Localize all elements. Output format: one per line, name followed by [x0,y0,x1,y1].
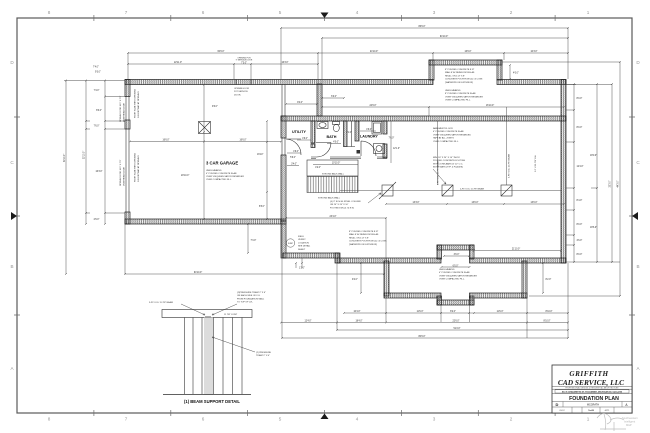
svg-text:UNEXCAVATED: UNEXCAVATED [206,169,222,172]
svg-text:UNEXCAVATED: UNEXCAVATED [445,89,461,92]
svg-text:16'6.0": 16'6.0" [239,140,246,142]
door arc bath [316,143,331,158]
svg-text:8'10.0": 8'10.0" [545,311,552,313]
dim chain top y64 [127,62,319,79]
svg-text:ON 24" X 24" X 10": ON 24" X 24" X 10" [330,204,349,206]
centerline marker left [11,212,17,220]
svg-text:LAUNDRY: LAUNDRY [360,135,378,139]
svg-text:6: 6 [202,10,205,15]
svg-text:94'10.0": 94'10.0" [440,36,448,38]
grid row labels left [10,60,14,371]
dim chain y338 [281,224,569,339]
svg-text:8'4.0": 8'4.0" [577,200,583,202]
wall bumpout south right (y295) [470,293,528,298]
svg-text:8'3.0": 8'3.0" [96,110,102,112]
svg-text:BASEMENT FLOOR: BASEMENT FLOOR [433,127,453,130]
svg-text:39'10.0": 39'10.0" [64,154,66,162]
svg-text:10'10.0": 10'10.0" [332,163,340,165]
svg-text:4'0.0": 4'0.0" [513,73,519,75]
dim garage 16'6 chain y141 [129,140,282,143]
svg-text:2: 2 [510,417,513,422]
note steel column spec with leader [330,193,381,209]
svg-text:24'10.0": 24'10.0" [370,51,378,53]
svg-text:9' SERVICE DOOR: 9' SERVICE DOOR [236,60,253,62]
bath sink [317,122,328,129]
laundry washer [372,122,382,135]
svg-text:OVERHEAD DOOR: OVERHEAD DOOR [123,167,126,186]
dim rooms small lines [287,121,391,166]
svg-text:POUR SLAB THRU OPENING: POUR SLAB THRU OPENING [134,152,137,182]
svg-text:5'6.0": 5'6.0" [290,157,296,159]
svg-text:MIN. 24" X 24" X 10" THICK: MIN. 24" X 24" X 10" THICK [433,157,460,159]
svg-text:8: 8 [48,417,51,422]
svg-text:23'4.0": 23'4.0" [329,216,336,218]
bath toilet [333,122,340,132]
svg-text:STRONG BACK WALL: STRONG BACK WALL [322,173,345,176]
beam detail note pressure treat 2x4 [212,337,272,357]
svg-text:80'6.0": 80'6.0" [418,336,425,338]
svg-text:13'0.0": 13'0.0" [530,202,537,204]
svg-text:OVER VISQUEEN VAPOR RETARDER: OVER VISQUEEN VAPOR RETARDER [206,175,244,178]
svg-text:44'3.0": 44'3.0" [618,180,620,187]
svg-text:OVER VISQUEEN VAPOR RETARDED: OVER VISQUEEN VAPOR RETARDED [433,133,471,136]
svg-text:POUR SLAB THRU OPENING: POUR SLAB THRU OPENING [134,88,137,118]
svg-text:(1) BEAM SUPPORT DETAIL: (1) BEAM SUPPORT DETAIL [184,399,240,404]
wall bath/laundry x357 [355,121,359,141]
dim chain y313 [343,311,569,314]
wall west lower vertical x283 [281,221,286,258]
door arc laundry [361,141,376,156]
dim right chain x620 [502,61,621,297]
svg-text:94'10.0": 94'10.0" [194,272,202,274]
wall garage+house top (y80) [125,80,433,85]
svg-text:10'4.0": 10'4.0" [353,311,360,313]
svg-text:6'0.0": 6'0.0" [331,96,337,98]
svg-text:10'3.0": 10'3.0" [530,51,537,53]
dim 1'2 below sump wall [295,258,305,270]
beam detail joist lines [185,318,243,395]
wall east x563 [561,80,566,264]
svg-text:8'0.0": 8'0.0" [577,127,583,129]
svg-text:WALLS W/ REINFORCING AS: WALLS W/ REINFORCING AS [445,71,475,74]
svg-text:LOCATION: LOCATION [298,241,309,244]
wall south main right segment (y260) [470,258,567,263]
svg-text:51'2.0": 51'2.0" [453,328,460,330]
title row D mcgrath A [563,402,622,408]
wall bumpout east x524 [522,261,527,298]
svg-text:24'6.0": 24'6.0" [369,105,376,107]
svg-text:32'3.0": 32'3.0" [610,180,612,187]
svg-text:OVERHEAD DOOR: OVERHEAD DOOR [123,103,126,122]
svg-text:OVER COMPACTED FILL.: OVER COMPACTED FILL. [439,278,465,281]
dim sump width chain y218 [285,216,387,261]
note unexcavated bumpout [439,268,477,281]
svg-text:16'6.0": 16'6.0" [162,140,169,142]
svg-text:8'10.0": 8'10.0" [543,321,550,323]
svg-text:32'10.0": 32'10.0" [84,151,86,159]
strong back wall upper rect [307,160,358,176]
svg-text:4'6.0": 4'6.0" [366,129,372,131]
dim 3'0 6'0 bump-up [441,254,471,268]
dim chain y322 [280,321,569,324]
sump pit circle [286,239,294,247]
note field verify sump [298,236,311,251]
wall utility/bath x313 [311,121,315,143]
svg-text:22'11.0": 22'11.0" [174,62,182,64]
dim chain left x66 [64,80,67,276]
svg-text:16'10": 16'10" [257,154,264,156]
dim stoop 6'0 [321,96,345,99]
svg-text:3-PLY LVL 11 7/8" BEAM: 3-PLY LVL 11 7/8" BEAM [508,154,511,178]
wall sump jog vertical x337 [335,253,340,263]
svg-text:(2) PRESSURE: (2) PRESSURE [256,352,272,354]
svg-text:2-PLY LVL 11 7/8" BEAM: 2-PLY LVL 11 7/8" BEAM [460,188,484,191]
svg-text:1'2.0": 1'2.0" [299,268,305,270]
svg-text:7'4.0": 7'4.0" [94,90,100,92]
svg-text:4'6.0": 4'6.0" [293,151,299,153]
svg-text:3'0.0": 3'0.0" [454,254,460,256]
svg-text:STRONG BACK WALL: STRONG BACK WALL [318,197,341,200]
svg-text:B: B [10,264,13,269]
note unexcavated top right [445,89,483,102]
grid column labels top [48,10,590,15]
laundry sink tub [374,144,385,154]
dim garage right vertical chain x267 [257,120,268,220]
svg-text:CONCRETE FOOTER W/ (2) #4 CONT: CONCRETE FOOTER W/ (2) #4 CONT. [349,241,387,243]
wall step vertical x500 [497,60,502,80]
svg-text:16'3.0": 16'3.0" [95,171,102,173]
svg-text:REQD, ON 1'-8" X 8": REQD, ON 1'-8" X 8" [349,237,369,239]
svg-text:FROM FOUNDATION WALL: FROM FOUNDATION WALL [237,297,265,300]
svg-text:9'4.0": 9'4.0" [297,102,303,104]
note 3 car garage [206,161,244,182]
svg-text:4'0.0": 4'0.0" [333,142,339,144]
wall bumpout west x386 [384,261,389,296]
svg-text:7'4.0": 7'4.0" [93,67,99,69]
wall laundry right x385 [383,121,387,158]
svg-text:UTILITY: UTILITY [292,130,306,134]
beam detail top bar [162,310,252,318]
svg-text:TAPE AT ALL JOINTS: TAPE AT ALL JOINTS [433,137,454,140]
note opening service door above wall [236,58,253,65]
wall upper rear (y62) [429,60,502,65]
svg-text:3 CAR GARAGE: 3 CAR GARAGE [206,161,238,166]
beam line vertical x437 [437,121,439,185]
svg-text:8" POURED CONCRETE SLAB: 8" POURED CONCRETE SLAB [445,92,476,95]
svg-text:2'4" X 11 7/8" LVL: 2'4" X 11 7/8" LVL [535,154,537,172]
note 8in poured walls mid left [349,231,387,246]
dim stoop 9'4 [285,102,318,105]
svg-text:OVER COMPACTED FILL.: OVER COMPACTED FILL. [433,140,459,143]
svg-text:2'1.0": 2'1.0" [346,132,352,134]
svg-text:FOUNDATION PLAN: FOUNDATION PLAN [569,396,619,402]
svg-text:9'3.0": 9'3.0" [95,72,101,74]
svg-text:86'6.0": 86'6.0" [418,26,425,28]
svg-text:OVER VISQUEEN VAPOR RETARDER: OVER VISQUEEN VAPOR RETARDER [439,274,477,277]
svg-text:WALLS W/ REINFORCING AS: WALLS W/ REINFORCING AS [349,233,379,236]
beam detail label 3-ply lvl [149,301,205,315]
dim chain left x105 [94,80,127,226]
svg-text:18'4.0": 18'4.0" [355,321,362,323]
svg-text:20'10.0": 20'10.0" [181,175,189,177]
dim right chain x597 [590,83,598,263]
svg-text:11 7/8" JOIST: 11 7/8" JOIST [224,314,238,316]
svg-text:2'6.0": 2'6.0" [94,219,100,221]
svg-text:8'0.0": 8'0.0" [577,254,583,256]
svg-text:4" POURED CONCRETE SLAB: 4" POURED CONCRETE SLAB [206,172,237,175]
wall bumpout dip bottom (y302) [437,300,474,305]
svg-text:TREAT 2" X 4": TREAT 2" X 4" [256,354,270,357]
svg-text:SHEET: SHEET [298,249,306,251]
svg-text:ON EACH SIDE OF LVL: ON EACH SIDE OF LVL [237,294,261,297]
svg-text:13'3.0": 13'3.0" [412,202,419,204]
svg-text:5: 5 [279,10,282,15]
svg-text:5: 5 [279,417,282,422]
svg-text:MCGRATH: MCGRATH [587,403,599,406]
svg-text:21'10.0": 21'10.0" [512,249,520,251]
centerline marker top [321,13,329,19]
svg-text:8'5.0": 8'5.0" [259,206,265,208]
dim chain top y28 [280,26,569,79]
svg-text:1: 1 [587,417,590,422]
svg-text:(WATERPROOF EXTERIOR): (WATERPROOF EXTERIOR) [349,243,377,246]
svg-text:(WATERPROOF EXTERIOR): (WATERPROOF EXTERIOR) [445,81,473,84]
svg-text:4'2.0": 4'2.0" [315,167,321,169]
beam detail ground line [163,394,251,396]
svg-text:12'4.0": 12'4.0" [304,321,311,323]
svg-text:2X6 KEYWAY AT OPENING: 2X6 KEYWAY AT OPENING [137,91,140,118]
svg-text:7'6.0": 7'6.0" [389,138,395,140]
svg-text:13'0.0": 13'0.0" [471,202,478,204]
svg-text:OVER COMPACTED FILL.: OVER COMPACTED FILL. [445,99,471,102]
dim right chain x574 [566,83,620,263]
svg-text:4'6.0": 4'6.0" [302,138,308,140]
svg-text:(2)PRESSURE TREAT 2" X 6": (2)PRESSURE TREAT 2" X 6" [237,291,266,294]
note 8in poured walls top right [445,69,483,84]
svg-text:11'6.0": 11'6.0" [497,311,504,313]
svg-text:22'6.0": 22'6.0" [452,321,459,323]
dim 7'3 garage to sump wall [247,223,256,254]
svg-text:M&P: M&P [626,423,632,427]
wall step vertical x431 [429,60,434,80]
svg-text:8'0.0": 8'0.0" [577,224,583,226]
svg-text:CAD SERVICE, LLC: CAD SERVICE, LLC [558,378,624,387]
svg-text:4'6.0": 4'6.0" [577,240,583,242]
wall sump jog horizontal (y255) [283,253,339,258]
svg-text:(4) 3" SCH 40 STEEL COLUMN: (4) 3" SCH 40 STEEL COLUMN [330,201,361,203]
svg-text:VERIFY: VERIFY [298,239,306,241]
beam centerline through columns [340,190,561,192]
svg-text:12'1.0": 12'1.0" [393,148,400,150]
wall bumpout dip right vertical [470,296,475,305]
svg-text:16'3.0": 16'3.0" [281,62,288,64]
svg-text:7: 7 [125,417,128,422]
wall garage bottom (y221) [125,219,286,224]
steel column basement 2 [442,185,453,196]
door arc utility left [286,139,301,155]
svg-text:11'6.0": 11'6.0" [417,311,424,313]
svg-text:8" POURED CONCRETE 8 FT: 8" POURED CONCRETE 8 FT [349,231,379,233]
svg-text:4" POURED CONCRETE SLAB: 4" POURED CONCRETE SLAB [439,271,470,274]
dim 8'2 right of bumpout [542,262,551,294]
svg-text:1in28: 1in28 [588,410,594,412]
note footing min 24x24 with leader [433,157,465,184]
svg-text:7'3.0": 7'3.0" [251,240,257,242]
rooms south thin wall y157 [311,157,387,159]
dim right chain x612 [610,83,614,263]
centerline marker bottom [321,414,329,420]
svg-text:1: 1 [587,10,590,15]
beam detail post shading [204,318,213,395]
wall south main left segment (y260) [337,258,441,263]
beam line vertical x506 [506,107,508,185]
steel column garage [199,122,211,134]
svg-text:OPENING FOR 16'2" X 7'0": OPENING FOR 16'2" X 7'0" [120,159,122,186]
wall garage right x283 [281,85,286,222]
svg-text:OVER VISQUEEN VAPOR RETARDER: OVER VISQUEEN VAPOR RETARDER [445,95,483,98]
svg-text:B: B [636,264,639,269]
svg-text:2X6 KEYWAY AT OPENING: 2X6 KEYWAY AT OPENING [137,155,140,182]
svg-text:D: D [556,402,559,407]
svg-text:3: 3 [433,417,436,422]
svg-text:8: 8 [48,10,51,15]
dim 4'0 step right [509,64,519,80]
svg-text:16'10.0": 16'10.0" [486,105,494,107]
svg-text:BATH: BATH [327,135,337,139]
svg-text:3: 3 [433,10,436,15]
svg-text:TO TOP OF LVL.: TO TOP OF LVL. [237,302,254,304]
svg-text:6: 6 [202,417,205,422]
dim 21'10 chain y250 [473,249,562,252]
dim chain y107 [321,84,565,116]
svg-text:2X7 SERVICE: 2X7 SERVICE [234,91,248,93]
wall south bump-up right vertical [470,245,475,259]
svg-text:8'2.0": 8'2.0" [450,311,456,313]
svg-text:9'6.0": 9'6.0" [212,106,218,108]
svg-text:16'6.0": 16'6.0" [464,51,471,53]
svg-text:813 S CHAUMETTE ST. TECUMSEH,: 813 S CHAUMETTE ST. TECUMSEH, MICHIGAN 5… [562,390,623,393]
steel column basement 3 [501,185,512,196]
svg-text:FOOTING W/ (2) #4 E.W.: FOOTING W/ (2) #4 E.W. [330,207,355,209]
svg-text:8" POURED CONCRETE 8 FT: 8" POURED CONCRETE 8 FT [445,69,475,71]
svg-text:18'6.0": 18'6.0" [590,227,597,229]
svg-text:REQD, ON 1'-8" X 8": REQD, ON 1'-8" X 8" [445,75,465,77]
svg-text:4: 4 [356,10,359,15]
svg-text:OVER COMPACTED FILL.: OVER COMPACTED FILL. [206,178,232,181]
wall bumpout dip left vertical [437,296,442,305]
beam detail note pressure treat top [212,291,266,315]
svg-text:SEE DETAIL: SEE DETAIL [298,245,311,248]
dim rooms small labels [290,129,400,169]
wall south bump-up top [437,245,474,250]
svg-text:8'0.0": 8'0.0" [577,98,583,100]
dim chain top y38 [321,36,569,84]
svg-text:2: 2 [510,10,513,15]
note basement floor [433,127,471,143]
grid row labels right [636,60,640,371]
steel column basement 1 [379,182,396,199]
wall stoop divider x320 [317,84,322,116]
wall garage left x127 with overhead door openings [125,80,130,225]
svg-text:SUMP: SUMP [288,243,294,245]
strong back wall ladder hatch [307,177,358,193]
svg-text:4: 4 [356,417,359,422]
svg-text:60'6.0": 60'6.0" [217,51,224,53]
dim chain left x86 [84,80,91,226]
dim garage center vertical chain [181,84,218,221]
svg-text:3'4.0": 3'4.0" [291,164,297,166]
svg-text:Southwestern: Southwestern [622,416,638,420]
svg-text:18'0.0": 18'0.0" [590,155,597,157]
svg-text:8'2.0": 8'2.0" [546,279,552,281]
svg-text:3-PLY LVL 11 7/8" BEAM: 3-PLY LVL 11 7/8" BEAM [437,161,440,185]
svg-text:FIELD: FIELD [298,236,305,238]
svg-text:GRIFFITH: GRIFFITH [569,370,608,378]
title address row [555,390,629,393]
svg-text:3-PLY LVL 11 7/8" BEAM: 3-PLY LVL 11 7/8" BEAM [149,301,173,304]
svg-text:OPENING FOR: OPENING FOR [234,88,249,90]
svg-text:Intelligent: Intelligent [624,420,635,424]
bath partition thin x345 [344,121,348,147]
beam detail hanger block [205,317,211,327]
wall south bump-up left vertical [437,245,442,259]
svg-text:7'6.0": 7'6.0" [94,126,100,128]
svg-text:UNEXCAVATED: UNEXCAVATED [439,268,455,271]
dim 8'3 bumpout left vertical [352,262,362,294]
dim long bottom 94'10 y274 [124,224,385,275]
svg-text:DOOR.: DOOR. [234,94,241,96]
centerline marker right [632,212,638,220]
wall bumpout south left (y295) [384,293,441,298]
watermark bottom right [597,413,626,431]
svg-text:CONCRETE FOOTER W/ (2) #4 CONT: CONCRETE FOOTER W/ (2) #4 CONT. [445,79,483,81]
dim ext line garage top left [64,80,125,82]
note opening service door inside garage [234,88,249,96]
wall interior main horizontal (y118) [281,116,566,121]
grid column labels bottom [48,417,590,422]
svg-text:6'0.0": 6'0.0" [453,265,459,267]
svg-text:9'4.0": 9'4.0" [352,279,358,281]
svg-text:12'4.0": 12'4.0" [577,166,584,168]
dim chain y330 [336,263,569,331]
wall rear right (y81) [497,80,566,85]
svg-text:01-12: 01-12 [559,410,565,412]
dim chain top y53 [127,51,569,84]
svg-text:7: 7 [125,10,128,15]
svg-text:OPENING FOR 16'2" X 7'0": OPENING FOR 16'2" X 7'0" [120,95,122,122]
svg-text:4" POURED CONCRETE SLAB: 4" POURED CONCRETE SLAB [433,130,464,133]
dim basement chain y204 [385,202,565,205]
title bottom row [572,407,614,413]
